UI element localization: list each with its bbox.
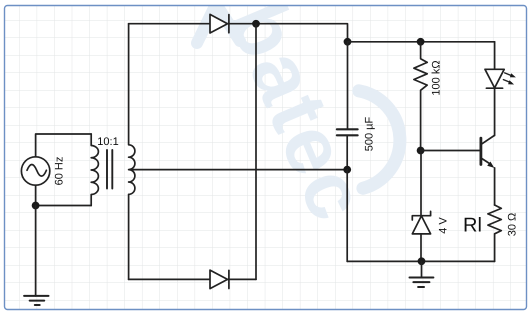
svg-text:10:1: 10:1 [97,136,118,148]
watermark arc [359,91,400,189]
wire zero rail down [346,170,348,262]
wire center tap [130,169,348,171]
zener diode Z1 [412,151,430,262]
ac source V1 60 Hz [21,157,49,185]
svg-text:30 Ω: 30 Ω [507,213,519,237]
wire bottom rail [347,260,494,262]
capacitor C1 500 uF [337,129,358,135]
resistor R1 100 k [414,42,427,151]
wire base [421,150,481,152]
wire cap bottom lead [346,136,348,169]
node junction top [252,20,260,28]
node junction resistor top [417,38,425,46]
svg-text:500 µF: 500 µF [364,116,376,151]
transformer T1 core [107,150,112,189]
node junction cap top rail [344,38,352,46]
transistor Q1 [481,136,495,206]
node junction ground rail [418,257,426,265]
svg-text:60 Hz: 60 Hz [54,157,66,186]
node junction at source bottom [32,202,40,210]
wire top rail [129,24,348,42]
wire source bottom [36,185,92,205]
watermark word [211,0,384,235]
transformer T1 primary winding [91,134,98,206]
wire cathode bus vertical [255,24,257,280]
svg-text:100 kΩ: 100 kΩ [431,60,443,95]
node junction base [417,147,425,155]
wire source top to primary [36,134,92,157]
ground (left) [24,296,48,305]
node junction cap bottom [343,166,351,174]
wire cap top lead [347,42,349,128]
transformer T1 secondary winding [129,24,135,280]
svg-text:4 V: 4 V [438,217,450,234]
diode D2 [210,270,229,289]
led D3 [485,42,504,136]
wire to ground [35,206,37,296]
ground (right) [410,261,434,287]
watermark chevron [197,4,240,43]
svg-text:Rl: Rl [463,215,482,237]
wire bottom left rail [129,278,256,280]
diode D1 [210,14,229,33]
resistor Rl 30 Ohm [488,205,501,261]
wire plus rail [348,41,495,43]
led arrows [503,73,516,85]
